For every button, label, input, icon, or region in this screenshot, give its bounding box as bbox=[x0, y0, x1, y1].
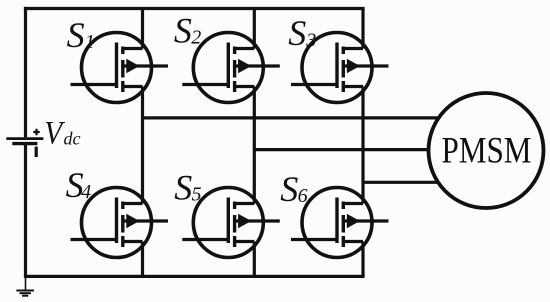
battery Vdc negative plate bbox=[12, 142, 37, 145]
transistor S6 (MOSFET) bbox=[291, 188, 389, 258]
transistor S2 (MOSFET) bbox=[182, 33, 279, 103]
wire phase C to motor bbox=[363, 181, 438, 184]
S3 drain stub bbox=[342, 47, 363, 50]
S5 body circle bbox=[193, 188, 263, 258]
S5 gate lead bbox=[182, 238, 228, 241]
motor PMSM bbox=[429, 93, 544, 208]
S1 arrow bbox=[126, 59, 139, 74]
svg-text:PMSM: PMSM bbox=[442, 130, 532, 171]
S2 body circle bbox=[193, 33, 263, 103]
label S1 bbox=[67, 15, 95, 55]
S1 channel segments bbox=[121, 47, 124, 93]
S5 arrow bbox=[238, 214, 251, 229]
svg-text:3: 3 bbox=[305, 29, 316, 51]
S6 gate plate bbox=[335, 198, 338, 244]
S4 body circle bbox=[82, 188, 152, 258]
transistor S3 (MOSFET) bbox=[291, 33, 389, 103]
S6 gate lead bbox=[291, 238, 337, 241]
wire top positive rail bbox=[24, 7, 365, 10]
svg-text:1: 1 bbox=[85, 31, 95, 53]
svg-text:S: S bbox=[174, 10, 192, 50]
S6 arrow bbox=[347, 214, 360, 229]
S4 gate lead bbox=[71, 238, 117, 241]
wire phase A to motor bbox=[143, 116, 439, 119]
S1 drain stub bbox=[122, 47, 143, 50]
S1 source stub bbox=[122, 85, 143, 88]
wire phase B to motor bbox=[254, 148, 429, 151]
S1 gate plate bbox=[115, 43, 118, 89]
wire leg B (S2/S5) midpoint segment bbox=[253, 87, 256, 204]
S1 gate lead bbox=[71, 83, 117, 86]
label S3 bbox=[288, 13, 316, 53]
S4 body/source line bbox=[123, 219, 168, 222]
S2 body/source line bbox=[235, 64, 280, 67]
wire bottom negative rail bbox=[24, 275, 365, 278]
S5 gate plate bbox=[227, 198, 230, 244]
svg-text:S: S bbox=[174, 167, 192, 207]
svg-text:S: S bbox=[67, 15, 85, 55]
S5 drain stub bbox=[233, 202, 254, 205]
wire leg A (S1/S4) midpoint segment bbox=[141, 87, 144, 204]
S1 body/source line bbox=[123, 64, 168, 67]
transistor S4 (MOSFET) bbox=[71, 188, 169, 258]
svg-text:S: S bbox=[288, 13, 306, 53]
S3 body circle bbox=[302, 33, 372, 103]
label S4 bbox=[66, 165, 92, 205]
S1 body circle bbox=[82, 33, 152, 103]
S5 source stub bbox=[233, 240, 254, 243]
wire leg A (S1/S4) drain segment bbox=[141, 9, 144, 49]
S3 gate lead bbox=[291, 83, 337, 86]
battery plus sign bbox=[33, 129, 39, 135]
wire left battery branch lower bbox=[24, 145, 27, 276]
S6 channel segments bbox=[342, 202, 345, 248]
S4 arrow bbox=[126, 214, 139, 229]
S2 source stub bbox=[233, 85, 254, 88]
wire leg B (S2/S5) drain segment bbox=[253, 9, 256, 49]
S2 channel segments bbox=[233, 47, 236, 93]
S4 gate plate bbox=[115, 198, 118, 244]
S6 source stub bbox=[342, 240, 363, 243]
S4 source stub bbox=[122, 240, 143, 243]
svg-text:2: 2 bbox=[191, 27, 201, 49]
label S5 bbox=[174, 167, 201, 207]
battery negative terminal tick bbox=[35, 147, 38, 157]
transistor S1 (MOSFET) bbox=[71, 33, 169, 103]
S2 drain stub bbox=[233, 47, 254, 50]
wire leg C (S3/S6) source segment bbox=[361, 242, 364, 277]
S2 arrow bbox=[238, 59, 251, 74]
S4 drain stub bbox=[122, 202, 143, 205]
S6 body/source line bbox=[343, 219, 388, 222]
S3 source stub bbox=[342, 85, 363, 88]
battery Vdc positive plate bbox=[6, 137, 43, 140]
label S6 bbox=[280, 169, 307, 209]
S3 arrow bbox=[347, 59, 360, 74]
svg-text:dc: dc bbox=[64, 129, 81, 149]
S6 body circle bbox=[302, 188, 372, 258]
svg-text:5: 5 bbox=[192, 184, 202, 206]
wire leg C (S3/S6) drain segment bbox=[361, 9, 364, 49]
ground bbox=[16, 276, 34, 295]
wire leg A (S1/S4) source segment bbox=[141, 242, 144, 277]
S5 channel segments bbox=[233, 202, 236, 248]
svg-text:6: 6 bbox=[298, 185, 308, 207]
S3 gate plate bbox=[335, 43, 338, 89]
label S2 bbox=[174, 10, 201, 50]
S2 gate lead bbox=[182, 83, 228, 86]
wire left battery branch upper bbox=[24, 7, 27, 137]
svg-text:S: S bbox=[280, 169, 298, 209]
S3 channel segments bbox=[342, 47, 345, 93]
transistor S5 (MOSFET) bbox=[182, 188, 279, 258]
S2 gate plate bbox=[227, 43, 230, 89]
S5 body/source line bbox=[235, 219, 280, 222]
S4 channel segments bbox=[121, 202, 124, 248]
svg-text:4: 4 bbox=[81, 181, 91, 203]
label Vdc bbox=[44, 115, 80, 151]
wire leg B (S2/S5) source segment bbox=[253, 242, 256, 277]
S3 body/source line bbox=[343, 64, 388, 67]
S6 drain stub bbox=[342, 202, 363, 205]
wire leg C (S3/S6) midpoint segment bbox=[361, 87, 364, 204]
